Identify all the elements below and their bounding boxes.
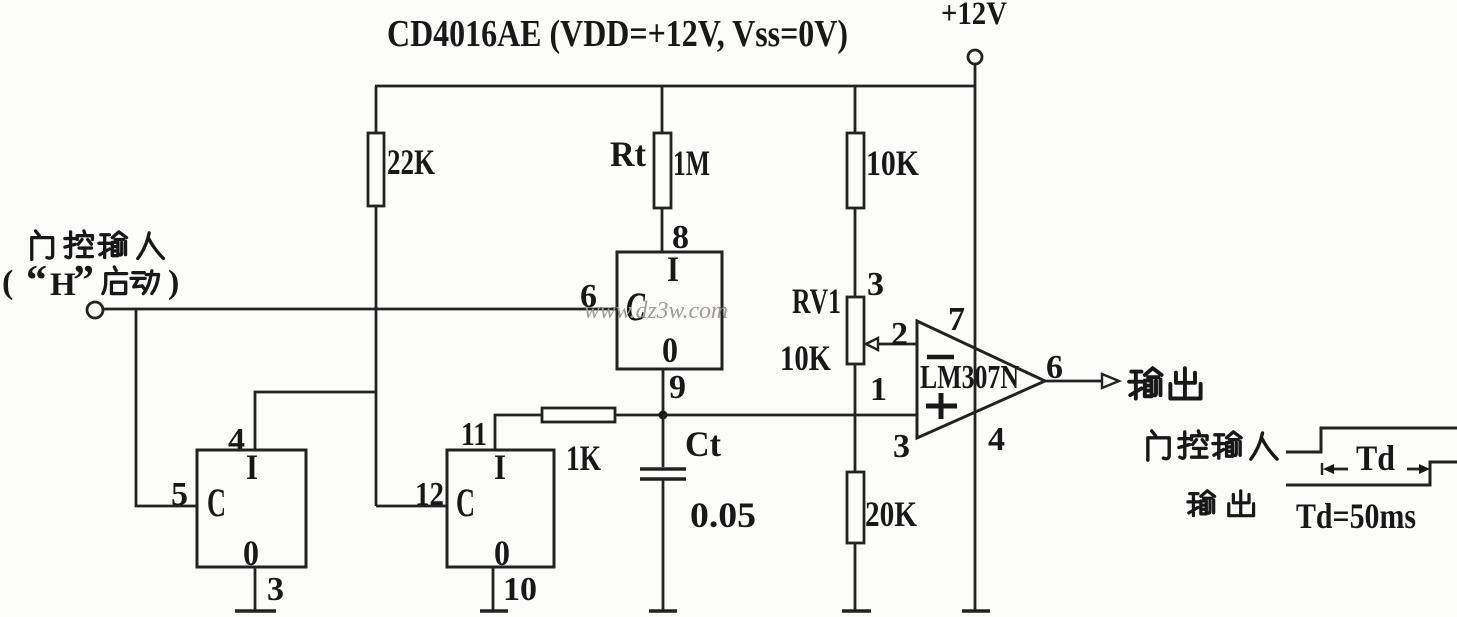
wire 1K to node xyxy=(615,414,663,417)
svg-text:Td: Td xyxy=(1356,438,1395,478)
pot pin 3 label xyxy=(867,266,884,303)
wire input branch down xyxy=(136,309,197,506)
output arrow xyxy=(1102,374,1119,388)
svg-text:2: 2 xyxy=(891,316,908,353)
svg-text:20K: 20K xyxy=(865,494,917,534)
potentiometer RV1 xyxy=(780,281,864,378)
wire +12V rail xyxy=(375,85,975,88)
wiper arrow xyxy=(866,338,917,350)
Td right arrow xyxy=(1407,464,1430,474)
svg-text:CD4016AE (VDD=+12V, Vss=0V): CD4016AE (VDD=+12V, Vss=0V) xyxy=(387,13,848,55)
ground 20K xyxy=(842,609,871,613)
svg-text:C: C xyxy=(207,480,226,525)
svg-text:I: I xyxy=(246,447,258,487)
svg-text:”: ” xyxy=(73,258,94,304)
svg-text:1M: 1M xyxy=(673,143,710,183)
resistor Rt 1M xyxy=(610,133,710,208)
pin 4 label xyxy=(988,421,1005,458)
wire 22K top xyxy=(375,86,378,133)
svg-text:LM307N: LM307N xyxy=(920,359,1019,396)
svg-text:I: I xyxy=(667,249,679,289)
wire pin10 xyxy=(492,567,495,610)
wire pin8 riser xyxy=(661,208,664,252)
svg-text:11: 11 xyxy=(461,416,487,453)
wire pin11 link xyxy=(495,415,542,450)
wire output xyxy=(1045,380,1101,383)
label output xyxy=(1129,368,1200,398)
switch box S2 xyxy=(447,447,554,573)
svg-text:Ct: Ct xyxy=(685,424,721,464)
resistor 10K xyxy=(847,133,919,208)
svg-text:10: 10 xyxy=(503,571,537,608)
pin 11 label xyxy=(461,416,487,453)
Td label xyxy=(1356,438,1395,478)
watermark xyxy=(584,298,728,324)
svg-text:0: 0 xyxy=(662,330,678,370)
pin 10 label xyxy=(503,571,537,608)
pin 9 label xyxy=(669,369,686,406)
ground S1 xyxy=(235,609,276,613)
capacitor Ct xyxy=(640,415,756,610)
svg-text:0: 0 xyxy=(494,533,510,573)
ground op-amp pin4 xyxy=(962,609,990,613)
input terminal xyxy=(87,302,103,318)
label Td=50ms xyxy=(1296,496,1416,536)
svg-text:“: “ xyxy=(26,258,47,304)
wire Rt top xyxy=(661,86,664,133)
wire main signal xyxy=(663,414,917,417)
switch box S3 xyxy=(617,249,722,370)
node junction xyxy=(659,411,668,420)
resistor 1K xyxy=(542,408,615,478)
+12V label xyxy=(941,0,1007,32)
ground S2 xyxy=(480,609,508,613)
pin 4 label xyxy=(228,422,245,459)
wire 10K to pot xyxy=(854,208,857,297)
svg-text:10K: 10K xyxy=(780,338,831,378)
svg-text:9: 9 xyxy=(669,369,686,406)
wire input horizontal xyxy=(103,308,617,311)
svg-text:10K: 10K xyxy=(866,143,919,183)
svg-text:RV1: RV1 xyxy=(792,281,841,321)
wire pot to 20K xyxy=(854,364,857,472)
pin 3 label xyxy=(267,571,284,608)
svg-text:(: ( xyxy=(2,264,13,301)
svg-text:3: 3 xyxy=(267,571,284,608)
resistor 20K xyxy=(847,472,917,543)
wire +12V vertical drop xyxy=(974,86,977,610)
svg-text:I: I xyxy=(494,447,506,487)
pin 2 label xyxy=(891,316,908,353)
wire 20K bottom xyxy=(854,543,857,610)
svg-text:22K: 22K xyxy=(387,142,435,182)
label gate input line2 ("H" start) xyxy=(2,258,179,304)
+12V terminal xyxy=(968,50,982,86)
pin 5 label xyxy=(171,476,188,513)
label timing gate input xyxy=(1148,431,1277,460)
svg-text:3: 3 xyxy=(867,266,884,303)
svg-text:0: 0 xyxy=(243,533,259,573)
svg-text:7: 7 xyxy=(948,301,965,338)
svg-text:5: 5 xyxy=(171,476,188,513)
svg-text:1: 1 xyxy=(870,371,887,408)
ground Ct xyxy=(649,609,677,613)
wire 10K top xyxy=(854,86,857,133)
svg-text:Td=50ms: Td=50ms xyxy=(1296,496,1416,536)
Td left arrow xyxy=(1322,463,1348,475)
pin 7 label xyxy=(948,301,965,338)
resistor 22K xyxy=(368,133,435,206)
pin 8 label xyxy=(672,219,689,256)
wire pin12 link xyxy=(376,505,447,508)
wire 22K bottom vertical xyxy=(375,206,378,506)
title CD4016AE (VDD=+12V, Vss=0V) xyxy=(387,13,848,55)
svg-text:4: 4 xyxy=(228,422,245,459)
pin 6 label xyxy=(580,278,597,315)
svg-text:C: C xyxy=(456,480,475,525)
label timing output xyxy=(1188,491,1254,516)
svg-text:Rt: Rt xyxy=(610,134,646,174)
wire pin4 link xyxy=(255,392,376,450)
svg-text:12: 12 xyxy=(415,476,444,513)
pin 6 label xyxy=(1046,349,1063,386)
wire pin3 xyxy=(254,567,257,610)
pin 12 label xyxy=(415,476,444,513)
label gate input line1 xyxy=(32,231,164,260)
svg-text:4: 4 xyxy=(988,421,1005,458)
op-amp U1 LM307N xyxy=(917,321,1045,438)
svg-text:3: 3 xyxy=(893,428,910,465)
svg-text:www.dz3w.com: www.dz3w.com xyxy=(584,298,728,324)
svg-text:): ) xyxy=(168,264,179,301)
pot pin 1 label xyxy=(870,371,887,408)
svg-text:0.05: 0.05 xyxy=(690,495,756,535)
switch box S1 xyxy=(197,447,306,573)
svg-text:1K: 1K xyxy=(566,438,601,478)
svg-text:+12V: +12V xyxy=(941,0,1007,32)
wire pin9 xyxy=(662,369,665,415)
waveform gate input xyxy=(1286,428,1457,452)
waveform output xyxy=(1286,462,1457,485)
pin 3 opamp label xyxy=(893,428,910,465)
